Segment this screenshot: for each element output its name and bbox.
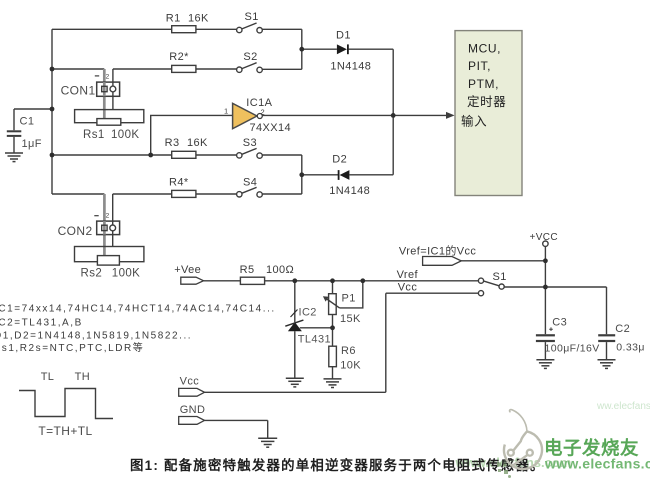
svg-text:输入: 输入 [461,114,487,129]
svg-text:PTM,: PTM, [468,77,499,91]
diode D1 [337,44,349,54]
svg-text:Vcc: Vcc [180,376,200,388]
svg-text:P1: P1 [342,292,356,304]
svg-text:D1,D2=1N4148,1N5819,1N5822...: D1,D2=1N4148,1N5819,1N5822... [0,330,192,341]
resistor R6 [329,346,337,367]
capacitor C2 [598,334,615,342]
ground (C2) [598,360,616,369]
svg-text:www.elecfans.com: www.elecfans.com [544,455,650,471]
label Vcc (row) [398,282,418,294]
label 1N4148 (D1) [330,60,371,72]
node Vref flag-VCC [543,258,548,263]
label C1 [20,115,35,127]
svg-text:Vcc: Vcc [398,282,418,294]
wire S1 common to C2 [504,287,606,334]
sensor resistor Rs2 [75,247,144,266]
label R2* [169,51,189,63]
MCU box text [461,41,506,128]
svg-text:S3: S3 [243,137,257,149]
ground (IC2) [286,378,304,387]
switch S2 [237,63,263,73]
label 74XX14 [250,122,292,134]
waveform TL TH [19,389,113,419]
wire Vref flag link [461,260,545,262]
svg-text:T=TH+TL: T=TH+TL [38,424,92,438]
svg-text:1μF: 1μF [22,138,42,150]
label pin1 IC1A [224,107,229,116]
wire S3-S4 collector [301,155,303,194]
wire Vcc net to S1 [205,293,479,392]
node TL431 ref [330,325,335,330]
watermark logo tiny marks [497,463,511,479]
svg-text:R3: R3 [165,137,180,149]
label GND (flag) [180,404,206,416]
wire C2 to ground [606,342,608,359]
ground (C3) [536,360,554,369]
svg-text:Vref: Vref [397,269,419,281]
label R3 16K [165,137,208,149]
label 10K [340,359,361,371]
label CON2 [58,224,93,238]
note text block [0,304,276,355]
ground (R6) [324,379,342,388]
svg-text:100μF/16V: 100μF/16V [545,343,600,355]
wire left bus vertical [51,29,53,194]
watermark faint tile right [596,401,650,412]
svg-text:GND: GND [180,404,206,416]
svg-text:S2: S2 [243,51,257,63]
label S1 [245,11,259,23]
capacitor C3 [536,327,555,342]
svg-text:IC1A: IC1A [246,97,272,109]
resistor R2 [172,65,196,72]
watermark text elecfans url [544,455,650,471]
connector CON1 [95,69,120,119]
flag Vcc (bottom) [179,388,205,396]
svg-text:S1: S1 [245,11,259,23]
node R5-P1 [330,278,335,283]
watermark text elecfans CN [544,438,639,459]
svg-text:0.33μ: 0.33μ [616,341,645,353]
svg-text:S1: S1 [493,271,507,283]
svg-text:16K: 16K [187,137,208,149]
node R5-IC2 [292,278,297,283]
svg-text:Vref=IC1的Vcc: Vref=IC1的Vcc [399,244,477,258]
resistor R1 [172,26,196,33]
wire TL431 ref [300,327,333,329]
label Vref [397,269,419,281]
label C2 [615,323,630,335]
label Vcc (flag) [180,376,200,388]
svg-text:100Ω: 100Ω [266,264,294,276]
capacitor C1 [7,130,21,137]
switch S4 [237,187,263,197]
label R4* [169,177,189,189]
resistor R5 [240,277,264,284]
switch S1 (lower SPDT) [478,278,504,296]
label CON1 [61,83,96,97]
svg-text:IC2=TL431,A,B: IC2=TL431,A,B [0,318,83,329]
svg-text:图1: 配备施密特触发器的单相逆变器服务于两个电阻式传感器。: 图1: 配备施密特触发器的单相逆变器服务于两个电阻式传感器。 [130,457,545,473]
svg-text:PIT,: PIT, [468,59,491,73]
watermark www.elecfans.com over caption [455,455,572,470]
node IC1A out [391,113,396,118]
sensor resistor Rs1 [75,110,144,126]
svg-text:1: 1 [224,107,229,116]
node VCC-S1 common [543,285,548,290]
svg-text:R5: R5 [240,264,255,276]
svg-text:2: 2 [261,108,266,117]
label IC1A [246,97,272,109]
svg-text:100K: 100K [111,129,139,141]
svg-text:MCU,: MCU, [468,41,501,55]
wire C1 tap [14,109,52,153]
label S1 (lower) [493,271,507,283]
svg-text:Rs1,R2s=NTC,PTC,LDR等: Rs1,R2s=NTC,PTC,LDR等 [0,341,144,354]
svg-text:R1: R1 [166,12,181,24]
svg-text:TL: TL [41,371,55,383]
svg-text:16K: 16K [188,12,209,24]
wire C3 to ground [544,342,546,359]
svg-text:1N4148: 1N4148 [329,185,370,197]
label +VCC [530,232,559,243]
node R3-IC1A in [148,153,153,158]
svg-text:2: 2 [106,213,110,220]
caption [130,457,545,473]
connector CON2 [94,194,119,256]
switch S1 [237,23,263,33]
svg-text:1N4148: 1N4148 [330,60,371,72]
svg-text:R2*: R2* [169,51,189,63]
wire R3 row [52,154,302,156]
switch S3 [237,148,263,158]
label 0.33u [616,341,645,353]
wire D2 branch [302,115,393,174]
wire D1 branch [302,49,393,115]
label 100uF/16V [545,343,600,355]
shunt regulator IC2 TL431 [285,310,303,332]
label C3 [552,317,567,329]
label 1N4148 (D2) [329,185,370,197]
node R5-wiper [360,278,365,283]
wire Vref net (R5 to S1) [265,280,479,282]
label +Vee [174,264,201,276]
wire +Vee to R5 [204,280,241,282]
label S3 [243,137,257,149]
label D1 [336,30,351,42]
svg-text:IC1=74xx14,74HC14,74HCT14,74AC: IC1=74xx14,74HC14,74HCT14,74AC14,74C14..… [0,304,276,315]
svg-text:Rs1: Rs1 [83,129,105,141]
svg-text:100K: 100K [112,267,140,279]
label R1 16K [166,12,209,24]
svg-text:TH: TH [75,371,90,383]
svg-text:R6: R6 [341,345,356,357]
label TH [75,371,90,383]
label Rs2 100K [81,267,141,279]
wire S1-S2 collector [301,29,303,69]
label P1 [342,292,356,304]
label D2 [332,153,347,165]
svg-text:R4*: R4* [169,177,189,189]
svg-text:15K: 15K [340,313,361,325]
label TL [41,371,55,383]
svg-text:定时器: 定时器 [467,94,506,109]
node bus-R3 [50,153,55,158]
label pin2 IC1A [261,108,266,117]
label 1uF [22,138,42,150]
svg-text:IC2: IC2 [299,306,317,318]
label R5 100ohm [240,264,295,276]
wire IC2 branch [294,281,296,378]
flag GND [179,417,205,425]
wire +VCC vertical [544,246,546,334]
svg-text:ww.elecfans.co: ww.elecfans.co [596,401,650,412]
wire GND flag [205,420,268,437]
node S3-S4-D2 [299,172,304,177]
flag +Vee [181,277,204,284]
svg-text:C3: C3 [552,317,567,329]
watermark logo bird [504,410,542,469]
arrowhead into MCU [446,112,455,119]
wire IC1A input [151,115,233,155]
op-amp inverter IC1A [233,103,263,128]
wire IC1A output to MCU [262,114,452,116]
wire CON1 pin2 [112,69,114,110]
resistor R4 [172,190,196,197]
svg-text:S4: S4 [243,176,257,188]
svg-text:74XX14: 74XX14 [250,122,292,134]
wire R4 row [52,193,302,195]
MCU box [455,31,522,196]
potentiometer P1 [323,294,340,315]
wire R2 row [52,68,302,70]
label TL431 [298,334,331,346]
terminal +VCC [543,241,548,246]
svg-text:10K: 10K [340,359,361,371]
svg-text:CON1: CON1 [61,83,96,97]
node S1-S2-D1 [299,47,304,52]
label Rs1 100K [83,129,139,141]
ground (GND flag) [258,438,277,447]
svg-text:+VCC: +VCC [530,232,559,243]
wire P1 branch [332,281,334,379]
svg-text:TL431: TL431 [298,334,331,346]
svg-text:+Vee: +Vee [174,264,201,276]
label S4 [243,176,257,188]
svg-text:C2: C2 [615,323,630,335]
flag Vref=IC1 Vcc [423,257,462,266]
wire R1 row [52,28,302,30]
resistor R3 [172,151,196,158]
wire P1 wiper [340,281,363,308]
svg-text:Rs2: Rs2 [81,267,103,279]
diode D2 [338,170,350,180]
svg-text:D1: D1 [336,30,351,42]
node bus-C1 [50,107,55,112]
svg-text:CON2: CON2 [58,224,93,238]
node bus-R2 [50,67,55,72]
label S2 [243,51,257,63]
label IC2 [299,306,317,318]
label Vref=IC1 Vcc [399,244,477,258]
label pin2 mark CON2 [106,213,110,220]
label T=TH+TL [38,424,92,438]
label pin2 mark CON1 [106,73,110,80]
svg-text:C1: C1 [20,115,35,127]
wire CON2 pin2 [112,194,114,247]
label 15K [340,313,361,325]
svg-text:2: 2 [106,73,110,80]
ground (C1) [5,153,23,162]
svg-text:D2: D2 [332,153,347,165]
label R6 [341,345,356,357]
